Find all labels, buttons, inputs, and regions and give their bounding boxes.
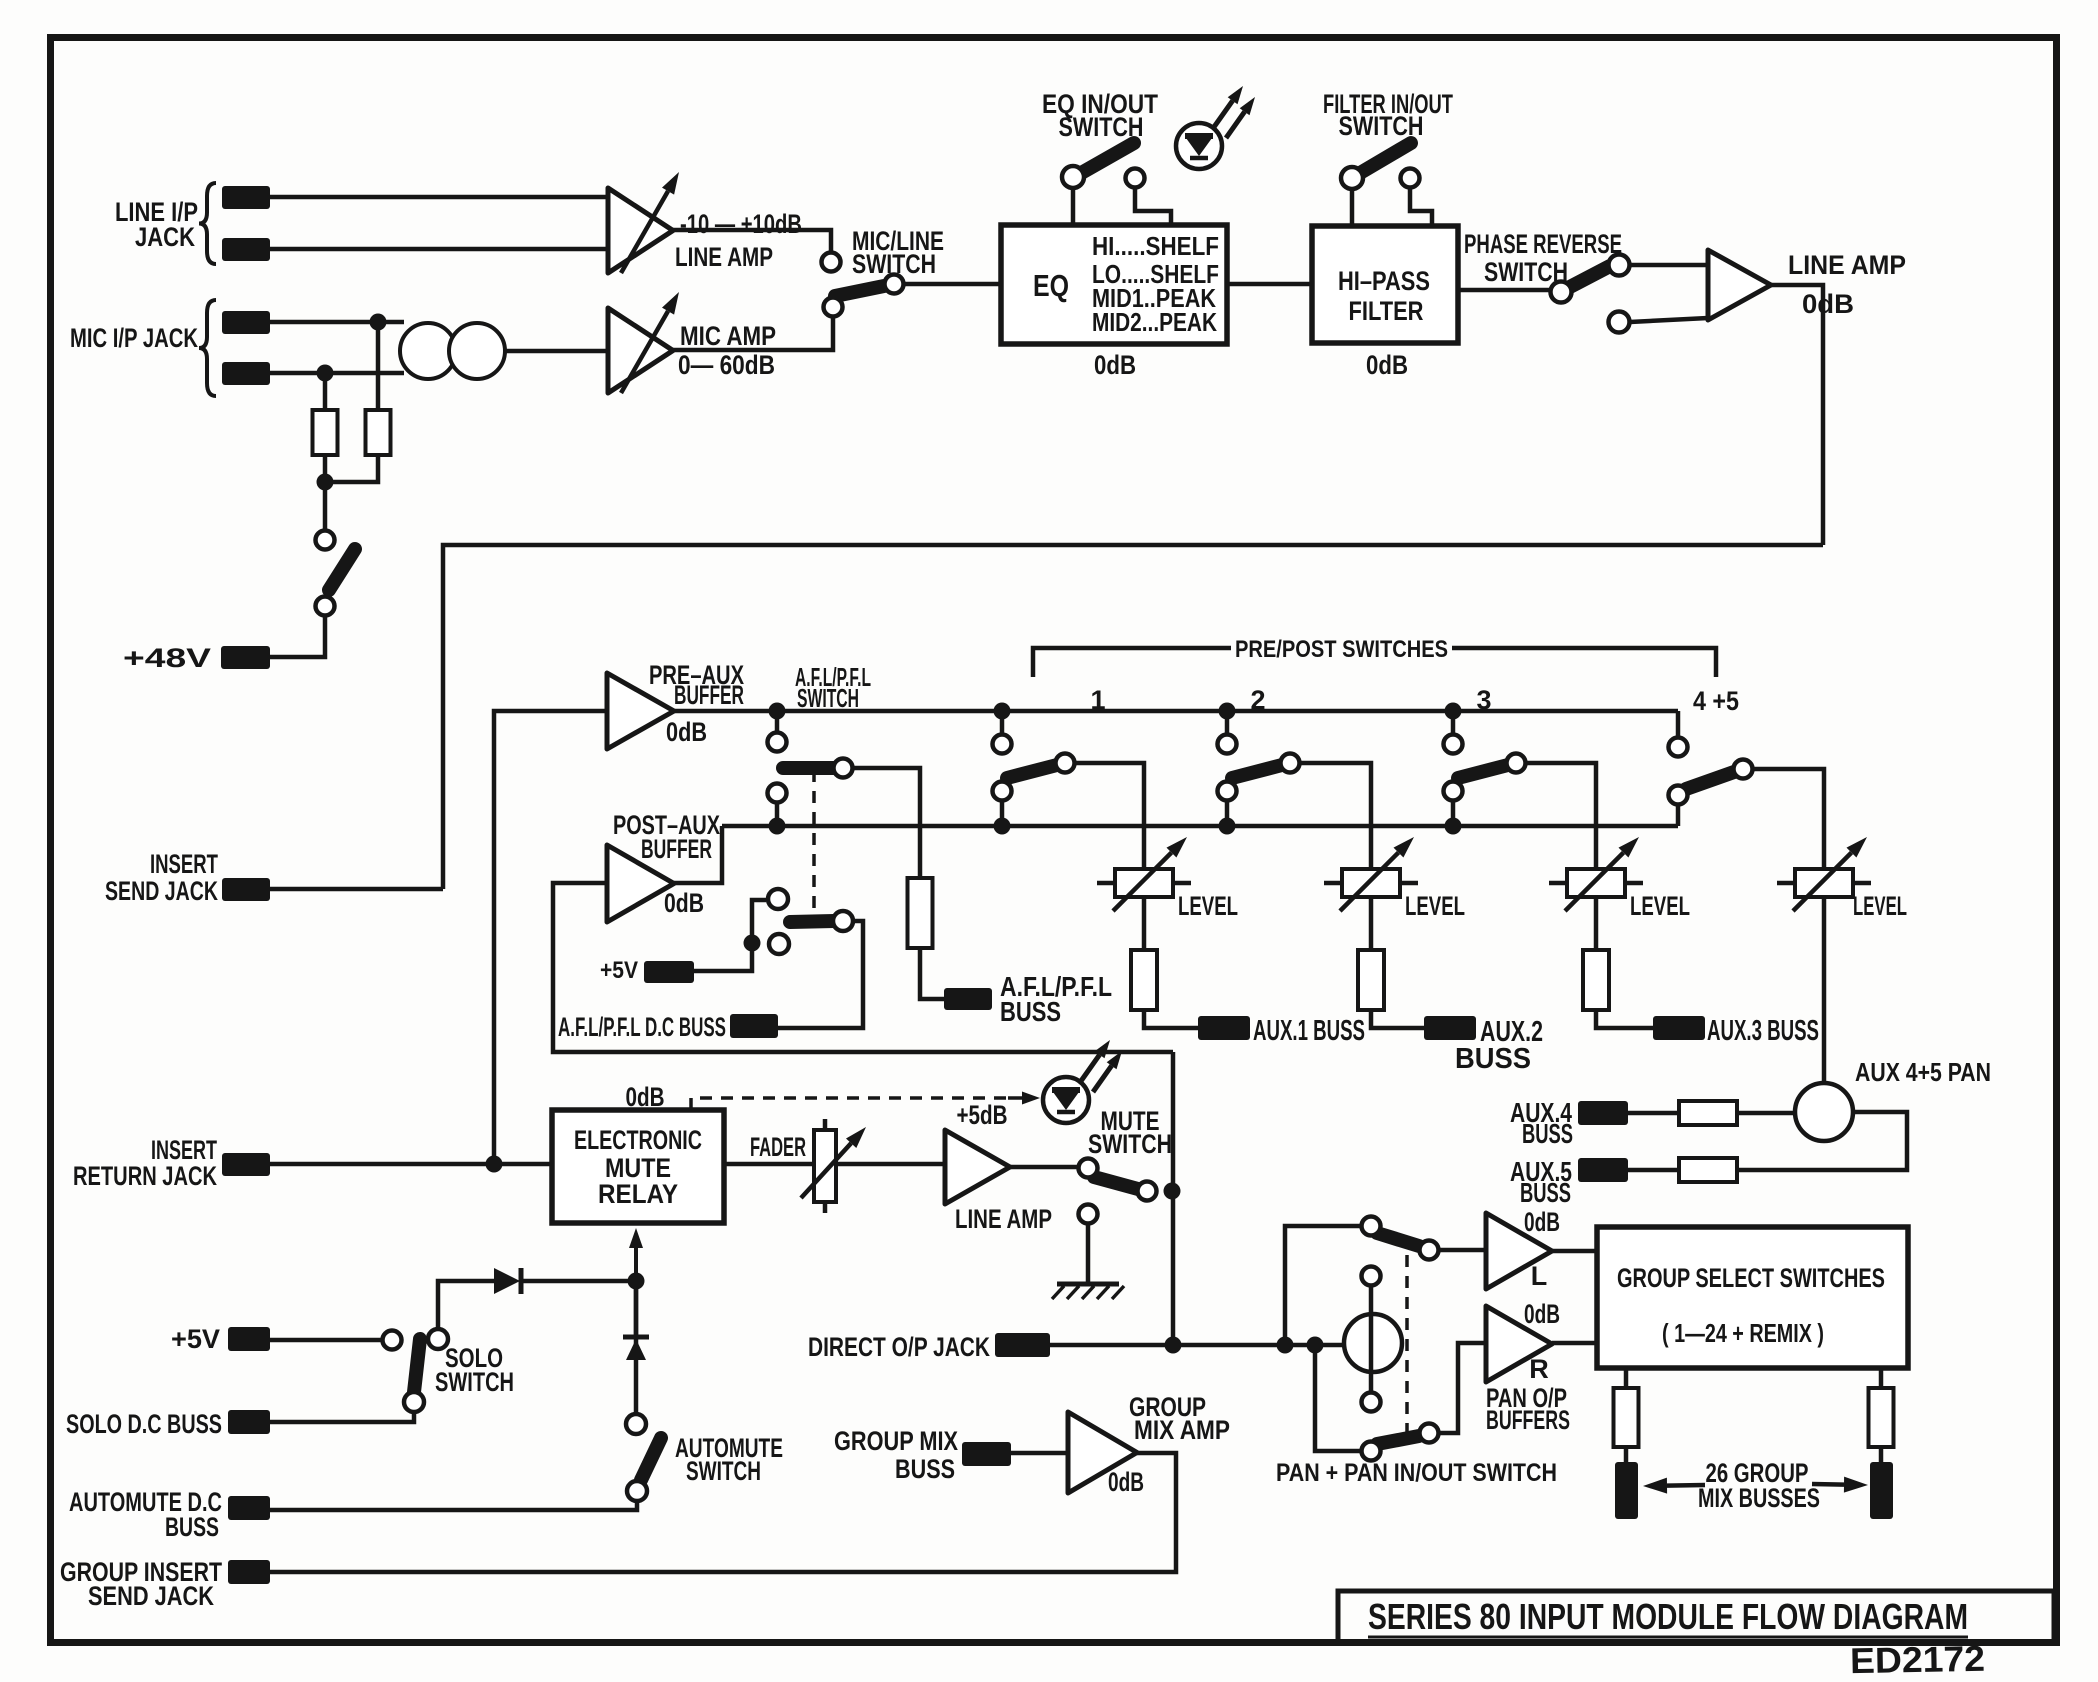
wire resistor to aux jack 3 — [1596, 1010, 1656, 1028]
contact dc switch common — [833, 911, 853, 931]
svg-text:LEVEL: LEVEL — [1405, 891, 1465, 921]
contact solo top — [428, 1329, 448, 1349]
wire line ring to line amp — [270, 247, 608, 252]
node pre wire switch 2 — [1219, 703, 1236, 720]
jack DIRECT O/P — [995, 1333, 1050, 1357]
label FILTER IN/OUT SWITCH — [1323, 89, 1453, 141]
wire pre wire end down — [1676, 711, 1681, 737]
svg-text:RELAY: RELAY — [598, 1179, 678, 1209]
node mute out — [1164, 1183, 1181, 1200]
contact pan bottom — [1362, 1393, 1381, 1412]
contact common 4+5 — [1734, 760, 1753, 779]
svg-text:BUSS: BUSS — [1522, 1118, 1573, 1149]
switch arm pre/post 3 — [1458, 765, 1508, 778]
node pan junction R — [1307, 1337, 1324, 1354]
switch arm pre/post 1 — [1007, 765, 1057, 778]
label MIC/LINE SWITCH — [852, 226, 944, 279]
wire pan R to R amp — [1439, 1343, 1486, 1433]
svg-text:MIC I/P JACK: MIC I/P JACK — [70, 323, 198, 353]
label HI SHELF — [1092, 231, 1219, 261]
label 0dB line amp — [1802, 289, 1854, 319]
label L — [1531, 1261, 1548, 1291]
level pot VR3 — [1549, 837, 1643, 911]
EQ box — [1001, 225, 1227, 344]
svg-text:MID2...PEAK: MID2...PEAK — [1092, 307, 1217, 337]
jack +5V afl — [644, 961, 694, 983]
label R 0dB — [1524, 1299, 1560, 1329]
svg-text:2: 2 — [1250, 685, 1265, 715]
wire group mix buss to amp — [1011, 1451, 1068, 1456]
arrow to right buss — [1812, 1477, 1868, 1493]
contact common 2 — [1281, 754, 1300, 773]
switch arm PHASE REVERSE — [1566, 266, 1610, 289]
label GROUP MIX AMP — [1129, 1392, 1230, 1445]
label SOLO SWITCH — [435, 1343, 514, 1397]
brace line input jack — [199, 183, 216, 264]
contact pre 1 — [993, 735, 1012, 754]
label ELECTRONIC MUTE RELAY — [574, 1125, 702, 1209]
svg-text:EQ: EQ — [1033, 268, 1069, 303]
wire mute vertical — [1171, 1052, 1176, 1345]
label +5V afl — [600, 957, 638, 984]
contact pre 4+5 — [1669, 738, 1688, 757]
jack group mix R — [1870, 1462, 1893, 1519]
contact common 3 — [1507, 754, 1526, 773]
wire dc junction to top contact — [752, 900, 766, 940]
svg-text:0dB: 0dB — [1108, 1467, 1144, 1497]
svg-text:LINE AMP: LINE AMP — [675, 242, 773, 272]
contact filter switch left — [1341, 167, 1363, 189]
node afl tap on pre wire — [769, 703, 786, 720]
svg-text:0dB: 0dB — [1524, 1299, 1560, 1329]
label +48V — [123, 643, 211, 673]
svg-text:3: 3 — [1476, 685, 1491, 715]
label PAN O/P BUFFERS — [1486, 1383, 1570, 1435]
wire insert send jack — [270, 887, 443, 892]
wire solo top to diode — [438, 1281, 494, 1329]
label A.F.L/P.F.L BUSS — [1000, 971, 1112, 1027]
switch arm MIC/LINE — [835, 286, 884, 296]
switch arm MUTE — [1094, 1177, 1138, 1189]
switch arm pre/post 4+5 — [1686, 772, 1734, 789]
wire L amp to group select — [1552, 1249, 1598, 1254]
node post wire switch 2 — [1219, 818, 1236, 835]
wire mic ring to transformer — [270, 371, 404, 376]
node post wire switch 3 — [1445, 818, 1462, 835]
contact phase switch bottom — [1609, 312, 1630, 333]
wire junction to automute diode — [634, 1281, 639, 1337]
svg-text:SERIES 80 INPUT MODULE FLOW: SERIES 80 INPUT MODULE FLOW DIAGRAM — [1368, 1596, 1968, 1637]
wire group R to jack — [1879, 1447, 1884, 1462]
wire aux5 jack to resistor — [1628, 1168, 1679, 1173]
switch arm pan R — [1377, 1436, 1419, 1444]
svg-text:PAN + PAN IN/OUT SWITCH: PAN + PAN IN/OUT SWITCH — [1276, 1459, 1557, 1487]
wire pot to resistor 1 — [1142, 897, 1147, 950]
svg-text:SOLO D.C BUSS: SOLO D.C BUSS — [66, 1409, 222, 1439]
group mix amp A9 — [1068, 1412, 1137, 1493]
wire relay to fader — [724, 1162, 814, 1167]
node pan junction L — [1277, 1337, 1294, 1354]
wire mic tip to transformer — [270, 320, 404, 325]
wire post contact to post wire 4+5 — [1676, 805, 1681, 826]
wire post-aux out up to post wire — [674, 826, 722, 883]
svg-text:BUSS: BUSS — [1455, 1043, 1531, 1075]
svg-text:+5V: +5V — [171, 1324, 220, 1354]
label EQ — [1033, 268, 1069, 303]
wire EQ to filter — [1227, 282, 1312, 287]
wire phantom switch to +48V jack — [270, 615, 325, 657]
contact dc switch top — [768, 889, 788, 909]
label post-aux 0dB — [664, 888, 704, 918]
pre-aux bus wire — [674, 709, 1678, 714]
label MID1 PEAK — [1092, 283, 1216, 313]
pan L buffer A7 — [1486, 1213, 1552, 1289]
svg-text:4 +5: 4 +5 — [1693, 686, 1739, 716]
svg-text:FILTER: FILTER — [1349, 296, 1424, 326]
contact afl common — [834, 759, 853, 778]
wire common to level pot 1 — [1074, 763, 1144, 869]
label DIRECT O/P JACK — [808, 1332, 990, 1362]
label PHASE REVERSE SWITCH — [1464, 229, 1622, 287]
pan pot (stereo) — [1344, 1286, 1402, 1392]
switch arm pre/post 2 — [1232, 765, 1282, 778]
contact post 1 — [993, 782, 1012, 801]
wire dc common to dc buss jack — [778, 921, 863, 1028]
label MIC I/P JACK — [70, 323, 198, 353]
contact phantom switch bottom — [316, 597, 335, 616]
switch arm afl dc — [790, 921, 834, 922]
contact common 1 — [1056, 754, 1075, 773]
svg-text:AUX.3 BUSS: AUX.3 BUSS — [1707, 1015, 1819, 1047]
resistor R aux4 — [1679, 1101, 1737, 1125]
label 1 — [1090, 685, 1105, 715]
svg-text:BUFFER: BUFFER — [674, 680, 744, 710]
wire common to level pot 2 — [1299, 763, 1371, 869]
pan R buffer A8 — [1486, 1306, 1552, 1382]
wire relay trigger with arrow — [629, 1228, 643, 1352]
wire filter switch right leg — [1410, 188, 1432, 226]
wire line amp out right and down — [1771, 285, 1823, 545]
node phantom junction — [317, 474, 334, 491]
wire to pan L switch — [1285, 1226, 1361, 1345]
svg-text:0dB: 0dB — [1802, 289, 1854, 319]
label INSERT RETURN JACK — [73, 1135, 217, 1191]
contact solo bottom — [404, 1392, 424, 1412]
svg-text:MIX AMP: MIX AMP — [1134, 1415, 1230, 1445]
node direct junction — [1165, 1337, 1182, 1354]
label AUX 4+5 PAN — [1855, 1057, 1991, 1087]
wire insert return to mute relay — [270, 1162, 552, 1167]
svg-text:LINE AMP: LINE AMP — [1788, 250, 1906, 280]
contact afl bottom — [768, 784, 787, 803]
wire transformer to mic amp — [505, 349, 608, 354]
wire aux4 jack to resistor — [1628, 1111, 1679, 1116]
jack AUX.4 BUSS — [1578, 1101, 1628, 1125]
wire R1/R2 bottoms join — [325, 455, 378, 482]
contact post 4+5 — [1669, 786, 1688, 805]
svg-text:FADER: FADER — [750, 1132, 806, 1162]
wire group mix amp out — [270, 1453, 1176, 1572]
svg-text:0dB: 0dB — [1366, 350, 1408, 380]
contact +5V end — [383, 1331, 402, 1350]
wire pre-aux feed up — [494, 711, 607, 1164]
contact mic/line common — [885, 275, 904, 294]
wire solo bottom to solo dc buss — [270, 1412, 414, 1422]
line amp A6 (post fader) — [945, 1130, 1010, 1204]
label HI-PASS FILTER — [1338, 266, 1430, 326]
GROUP SELECT SWITCHES box — [1597, 1227, 1908, 1368]
label filter 0dB — [1366, 350, 1408, 380]
contact pan R common — [1420, 1424, 1439, 1443]
label PRE-AUX BUFFER — [649, 660, 744, 710]
wire aux4 resistor to pan — [1737, 1111, 1795, 1116]
label LINE I/P JACK — [115, 197, 198, 252]
wire mic/line switch to EQ — [903, 282, 1001, 287]
svg-text:SWITCH: SWITCH — [686, 1456, 761, 1486]
label LEVEL 4 — [1853, 891, 1907, 921]
contact automute bottom — [627, 1481, 647, 1501]
label MIC AMP — [680, 321, 776, 351]
line amp A3 — [1708, 250, 1771, 320]
svg-text:L: L — [1531, 1261, 1548, 1291]
contact pan R in — [1362, 1442, 1381, 1461]
contact mute common — [1138, 1182, 1157, 1201]
wire pre dot to contact 2 — [1225, 718, 1230, 733]
wire pot4 to pan — [1822, 897, 1827, 1083]
label FADER — [750, 1132, 806, 1162]
transformer T1 — [400, 323, 505, 379]
level pot VR4 (aux 4+5) — [1777, 837, 1871, 911]
label LINE AMP — [675, 242, 773, 272]
label LEVEL 2 — [1405, 891, 1465, 921]
wire afl common to buss resistor — [852, 768, 920, 878]
contact filter switch right — [1401, 169, 1420, 188]
label 3 — [1476, 685, 1491, 715]
wire to pan R switch — [1315, 1345, 1361, 1451]
post-aux buffer A5 — [607, 845, 674, 922]
mic amp A2 (variable) — [608, 292, 679, 393]
post-aux bus wire — [722, 824, 1678, 829]
label AUX.2 BUSS — [1455, 1016, 1543, 1075]
label PAN + PAN IN/OUT SWITCH — [1276, 1459, 1557, 1487]
wire filter switch left leg — [1350, 189, 1355, 226]
jack LINE I/P ring — [222, 238, 270, 261]
jack INSERT RETURN — [222, 1153, 270, 1176]
jack AUX.1 BUSS — [1198, 1016, 1250, 1040]
jack AUX.3 BUSS — [1653, 1016, 1705, 1040]
svg-text:HI–PASS: HI–PASS — [1338, 266, 1430, 296]
label POST-AUX BUFFER — [613, 810, 720, 864]
wire afl tap to contact — [775, 718, 780, 733]
svg-text:0— 60dB: 0— 60dB — [678, 350, 775, 380]
node mic ring junction — [317, 365, 334, 382]
svg-text:PRE/POST SWITCHES: PRE/POST SWITCHES — [1235, 636, 1448, 663]
jack INSERT SEND — [222, 878, 270, 901]
jack group mix L — [1615, 1462, 1638, 1519]
pan pot AUX 4+5 PAN — [1795, 1083, 1853, 1141]
contact pre 3 — [1444, 735, 1463, 754]
svg-text:LEVEL: LEVEL — [1853, 891, 1907, 921]
wire filter to phase switch — [1458, 288, 1551, 293]
label 1-24 REMIX — [1662, 1318, 1824, 1348]
wire afl bottom to post wire — [775, 802, 780, 819]
label EQ IN/OUT SWITCH — [1042, 89, 1158, 142]
wire group L to jack — [1624, 1447, 1629, 1462]
label LO SHELF — [1092, 259, 1219, 289]
jack A.F.L/P.F.L BUSS — [944, 988, 992, 1010]
label A.F.L/P.F.L D.C BUSS — [558, 1012, 726, 1042]
level pot VR1 — [1097, 837, 1191, 911]
jack GROUP INSERT SEND — [228, 1560, 270, 1584]
dashed mute-LED link — [691, 1092, 1040, 1111]
wire post contact to post wire 2 — [1225, 800, 1230, 819]
wire line tip to line amp — [270, 195, 608, 200]
wire resistor to aux jack 1 — [1144, 1010, 1198, 1028]
node mic tip junction — [370, 314, 387, 331]
switch arm +48V phantom — [329, 549, 355, 590]
wire phase bottom to line amp — [1630, 318, 1708, 322]
resistor R aux3 — [1583, 950, 1609, 1010]
jack MIC I/P tip — [222, 311, 270, 334]
svg-text:RETURN JACK: RETURN JACK — [73, 1161, 217, 1191]
contact dc switch bottom — [769, 934, 789, 954]
svg-text:0dB: 0dB — [664, 888, 704, 918]
node solo diode junction — [628, 1273, 645, 1290]
label LINE AMP (channel) — [1788, 250, 1906, 280]
post-fade return loop — [553, 883, 1173, 1052]
wire eq switch right leg — [1135, 188, 1171, 225]
label -10 - +10dB — [680, 209, 802, 239]
svg-text:0dB: 0dB — [666, 717, 707, 747]
jack +48V — [221, 646, 270, 669]
label +5dB — [957, 1100, 1008, 1130]
label relay 0dB — [626, 1082, 665, 1112]
linkage dashed afl — [812, 770, 816, 915]
contact pan L in — [1362, 1217, 1381, 1236]
wire post contact to post wire 3 — [1451, 800, 1456, 819]
node dc switch junction — [744, 935, 761, 952]
jack GROUP MIX BUSS — [962, 1442, 1011, 1466]
svg-text:GROUP SELECT SWITCHES: GROUP SELECT SWITCHES — [1617, 1263, 1885, 1293]
svg-text:INSERT: INSERT — [150, 849, 218, 879]
resistor R aux2 — [1358, 950, 1384, 1010]
label GROUP INSERT SEND JACK — [60, 1557, 222, 1611]
contact pre 2 — [1218, 735, 1237, 754]
contact afl top — [768, 733, 787, 752]
pre/post bracket — [1033, 648, 1716, 677]
label EQ 0dB — [1094, 350, 1136, 380]
wire mic tip dot down to R2 — [376, 322, 381, 410]
svg-text:AUX 4+5 PAN: AUX 4+5 PAN — [1855, 1057, 1991, 1087]
label INSERT SEND JACK — [105, 849, 218, 906]
wire pre dot to contact 1 — [1000, 718, 1005, 733]
fader VR5 — [801, 1119, 866, 1213]
wire eq switch left leg — [1071, 188, 1076, 225]
wire common to level pot 3 — [1525, 763, 1596, 869]
jack SOLO D.C BUSS — [228, 1410, 270, 1434]
label AUTOMUTE SWITCH — [675, 1433, 783, 1486]
switch arm AUTOMUTE — [641, 1438, 661, 1480]
wire phase top to line amp — [1630, 263, 1708, 268]
label GROUP SELECT SWITCHES — [1617, 1263, 1885, 1293]
wire fader to line amp — [836, 1162, 945, 1167]
svg-text:DIRECT O/P JACK: DIRECT O/P JACK — [808, 1332, 990, 1362]
label A.F.L/P.F.L SWITCH — [795, 662, 871, 713]
label AUTOMUTE D.C BUSS — [69, 1487, 222, 1542]
wire junction to phantom switch — [323, 482, 328, 531]
label MUTE SWITCH — [1088, 1106, 1172, 1159]
brace mic input jack — [199, 300, 216, 396]
label LEVEL 1 — [1178, 891, 1238, 921]
pre-aux buffer A4 — [607, 673, 674, 749]
svg-text:SEND JACK: SEND JACK — [88, 1581, 214, 1611]
switch arm SOLO — [414, 1339, 420, 1392]
wire resistor to aux jack 2 — [1371, 1010, 1426, 1028]
svg-text:HI.....SHELF: HI.....SHELF — [1092, 231, 1219, 261]
label PRE/POST SWITCHES — [1235, 636, 1448, 663]
HI-PASS FILTER box — [1312, 226, 1458, 343]
line amp A1 (variable) — [608, 172, 679, 273]
label AUX.4 BUSS — [1510, 1097, 1573, 1149]
jack A.F.L/P.F.L D.C BUSS — [730, 1014, 778, 1038]
contact phantom switch top — [316, 531, 335, 550]
wire +5V to dc switch — [694, 943, 752, 971]
label 0-60dB — [678, 350, 775, 380]
title box — [1338, 1591, 2054, 1642]
arrow to left buss — [1643, 1478, 1705, 1494]
label MID2 PEAK — [1092, 307, 1217, 337]
resistor R2 (phantom) — [366, 410, 391, 455]
svg-text:ELECTRONIC: ELECTRONIC — [574, 1125, 702, 1155]
jack MIC I/P ring — [222, 362, 270, 385]
svg-text:BUSS: BUSS — [1520, 1177, 1571, 1208]
node afl on post wire — [769, 818, 786, 835]
ELECTRONIC MUTE RELAY box — [552, 1110, 724, 1223]
level pot VR2 — [1324, 837, 1418, 911]
jack AUX.2 BUSS — [1424, 1016, 1476, 1040]
svg-text:MIC AMP: MIC AMP — [680, 321, 776, 351]
svg-text:SWITCH: SWITCH — [852, 249, 936, 279]
svg-text:-10 — +10dB: -10 — +10dB — [680, 209, 802, 239]
label R — [1529, 1354, 1549, 1384]
wire aux5 resistor to pan loop — [1737, 1112, 1907, 1170]
contact mic/line line side — [822, 253, 841, 272]
switch arm A.F.L/P.F.L — [783, 761, 834, 775]
title text SERIES 80 INPUT MODULE FLOW DIAGRAM — [1368, 1596, 1968, 1637]
diode D4 automute — [623, 1337, 649, 1414]
wire line amp out to mic/line switch — [673, 230, 831, 251]
wire pot to resistor 2 — [1369, 897, 1374, 950]
svg-text:1: 1 — [1090, 685, 1105, 715]
wire to ground — [1086, 1224, 1091, 1284]
node pre wire switch 1 — [994, 703, 1011, 720]
label L 0dB — [1524, 1207, 1560, 1237]
switch arm EQ IN/OUT — [1076, 143, 1134, 176]
svg-text:GROUP MIX: GROUP MIX — [834, 1426, 958, 1456]
svg-text:LEVEL: LEVEL — [1178, 891, 1238, 921]
svg-text:BUFFER: BUFFER — [641, 834, 712, 864]
label GROUP MIX BUSS — [834, 1426, 958, 1484]
contact mic/line mic side — [824, 298, 843, 317]
diode D3 solo — [494, 1268, 636, 1294]
svg-text:BUSS: BUSS — [1000, 996, 1061, 1027]
ground symbol — [1052, 1284, 1124, 1299]
svg-text:SWITCH: SWITCH — [435, 1367, 514, 1397]
label +5V solo — [171, 1324, 220, 1354]
label LEVEL 3 — [1630, 891, 1690, 921]
wire line amp to mute switch — [1010, 1165, 1078, 1170]
svg-text:SWITCH: SWITCH — [797, 683, 859, 713]
